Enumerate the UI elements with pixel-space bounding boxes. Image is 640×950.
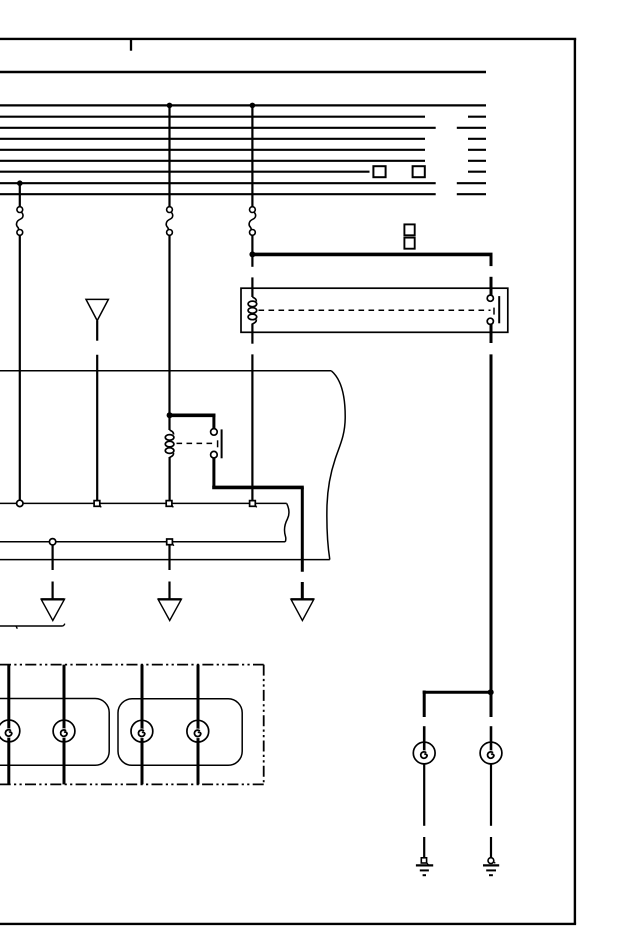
lamp wire 4 [197,665,200,785]
wire stub to arrow A [51,582,53,600]
bulb 6 [480,742,502,764]
wire FL3 down to node [251,235,253,266]
lamp wire 3 [141,665,144,785]
wire stub to arrow B [168,582,170,600]
node on L1 at x=169 [167,103,173,109]
bus line L8 [0,182,486,184]
relay R1 contact bar [498,296,500,323]
wire bulb 6 down [490,764,492,826]
ground left [416,858,433,875]
wire into bulb 6 [490,726,493,753]
wire R1 contact drop [490,254,493,266]
wire stub to ground left [423,837,425,857]
wire R1 contact out [490,324,493,343]
wire branch drop left [423,691,426,718]
wire B2 down [168,545,170,570]
node on L8 at x=20 [17,180,23,186]
terminal pin A4 [250,501,257,508]
partial label line [0,624,65,626]
relay R2 contact bar [221,429,223,458]
wire from L8 node down [19,183,21,207]
relay R2 link tick [217,440,219,447]
arrow B triangle [158,599,181,620]
lamp housing left [0,699,109,766]
lamp assembly dashed box [0,665,264,785]
bus line L6 [0,160,486,162]
connector code box upper [404,224,414,235]
wire long drop to lamps [490,354,493,717]
terminal pin A3 [166,501,173,508]
bulb 5 [413,742,435,764]
relay R2 contact terminal bottom [211,451,218,458]
wire stub to ground right [490,837,492,858]
relay R1 coil [248,297,257,324]
lamp housing right [118,699,242,766]
ground right [483,858,499,876]
arrow A triangle [41,599,64,620]
bus line L5 [0,149,486,151]
relay R1 box [241,288,508,332]
node tail lamp branch [488,689,494,695]
bus line L3 [0,127,486,129]
arrow C triangle [291,599,314,620]
connector code box lower [404,238,414,249]
relay R2 node [167,412,173,418]
fusible link FL2 [166,207,173,236]
node at relay feed [249,251,255,257]
relay R2 coil [165,430,174,458]
wire R2 coil to terminal [169,457,171,501]
relay R1 coil exit wire [251,324,253,344]
wire FL1 to junction block [19,235,21,500]
wire thick feed to R1 contact [252,253,492,257]
wire R2 feed [170,413,216,417]
wire R2 out down [212,458,215,488]
wire FL2 to relay R2 junction [168,235,170,430]
wire into bulb 5 [423,726,426,753]
bulb 2 [53,720,75,742]
bus line L4 [0,138,486,140]
terminal pin B1 [49,539,55,545]
terminal pin A1 [17,500,23,506]
wire from L1 node x=169 down [168,105,170,206]
bus line L2 [0,116,486,118]
wire B1 down [51,545,53,570]
wire segment into relay R1 [251,277,253,297]
bulb 4 [187,720,209,742]
terminal pin B2 [167,539,174,546]
wire below triangle [96,321,98,341]
wire into junction block [96,355,98,501]
partial label tick [16,626,17,629]
fusible link FL3 [249,207,256,236]
bus line L9 [0,193,486,195]
wire R2 out drop [301,487,304,571]
fusible link FL1 [17,207,24,236]
terminal pin A2 [94,501,101,508]
inner connector strip outline [0,503,289,541]
relay R1 link tick [493,308,495,315]
bus line L1 [0,104,486,106]
bulb 1 [0,720,20,742]
node on L1 at x=252 [250,103,256,109]
border tick mark [130,40,132,51]
wire R1 coil return into junction block [251,354,253,500]
wire branch left [423,691,493,694]
wire stub to arrow C [301,582,304,599]
wire R2 out right [212,486,304,490]
wire segment into R1 box [490,277,493,295]
connector box on L7 left [373,166,385,177]
relay R1 link dashed [259,309,491,311]
wire bulb 5 down [423,764,425,826]
wire R2 contact drop [212,414,215,429]
relay R1 contact terminal top [487,295,493,301]
header separator line [0,71,486,73]
lamp wire 2 [63,665,66,785]
relay R2 link dashed [177,442,214,444]
junction block J/B outline [0,371,345,560]
lamp wire 1 [7,665,10,785]
connector box on L7 right [413,166,425,177]
relay R1 contact terminal bottom [487,318,493,324]
bulb 3 [131,720,153,742]
arrow from fuse (triangle) [86,299,108,320]
wire from L1 node x=252 down [251,105,253,206]
bus line L7 [0,171,486,173]
relay R2 contact terminal top [211,429,218,436]
